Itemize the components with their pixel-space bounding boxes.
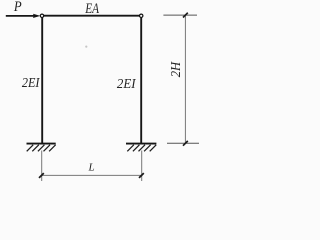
load P arrowhead: [33, 14, 40, 18]
fixed support left ground line: [27, 143, 56, 145]
dimension L left extension line: [41, 151, 43, 182]
svg-text:2EI: 2EI: [22, 76, 41, 91]
hinge circle right joint: [140, 14, 143, 17]
dimension 2H vertical line: [184, 15, 186, 143]
dimension 2H bottom oblique tick: [183, 141, 188, 146]
column left 2EI: [41, 18, 43, 144]
load P arrow line: [6, 15, 35, 17]
dimension L left oblique tick: [39, 173, 44, 178]
dimension L right oblique tick: [139, 173, 144, 178]
svg-text:2EI: 2EI: [117, 77, 137, 92]
fixed support left hatching: [27, 145, 56, 152]
hinge circle left joint: [40, 14, 43, 17]
dimension L right extension line: [141, 151, 143, 182]
dimension L horizontal line: [42, 174, 142, 176]
svg-text:P: P: [13, 0, 22, 15]
fixed support right ground line: [126, 143, 156, 145]
column right 2EI: [140, 18, 142, 144]
svg-text:L: L: [88, 161, 95, 173]
dimension 2H top tick line: [163, 14, 197, 16]
svg-text:2H: 2H: [168, 61, 183, 78]
dimension 2H bottom tick line: [167, 142, 199, 144]
beam EA: [44, 15, 140, 17]
scan speck artifact: [85, 46, 87, 48]
fixed support right hatching: [127, 145, 156, 152]
dimension 2H top oblique tick: [183, 13, 188, 18]
svg-text:EA: EA: [84, 1, 99, 17]
